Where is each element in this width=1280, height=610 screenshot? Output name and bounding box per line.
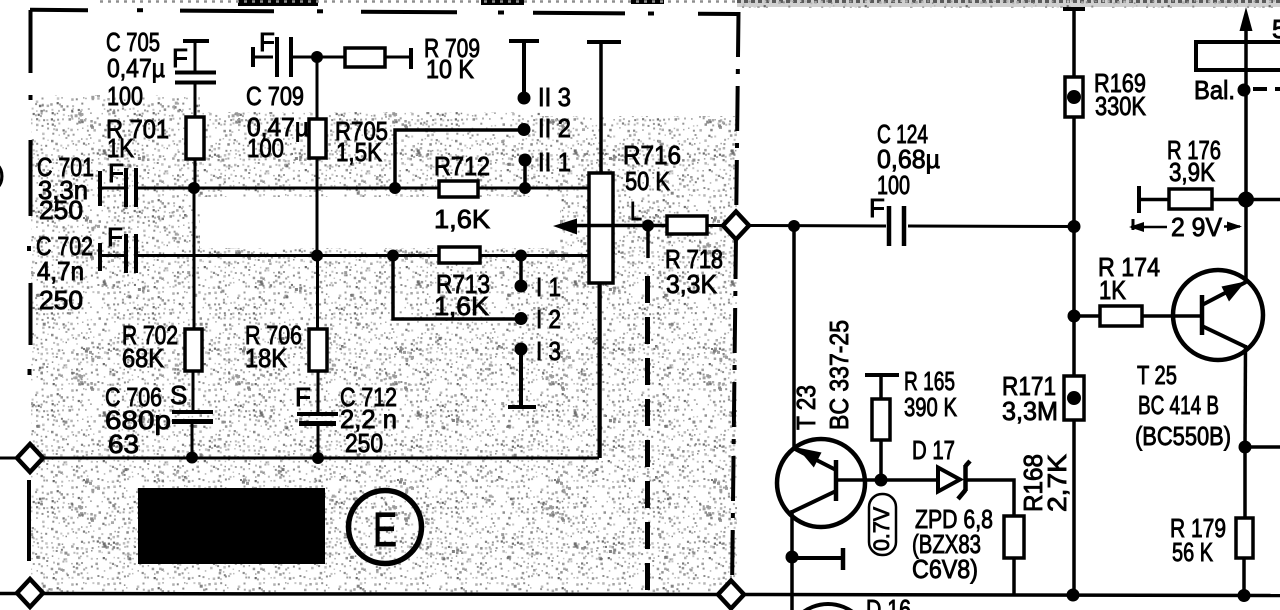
svg-text:50 K: 50 K xyxy=(625,166,671,196)
scan mark top edge 3 xyxy=(631,0,664,4)
svg-text:L: L xyxy=(630,196,642,226)
wire row y255 (C702 line) xyxy=(100,254,590,257)
wire row y188 (C701 line) xyxy=(100,187,590,190)
junction node T23 collector xyxy=(788,220,800,232)
wiper arrow of R716 xyxy=(553,219,667,235)
connector diamond bottom module edge xyxy=(718,581,744,609)
junction node II1 branch xyxy=(519,182,531,194)
resistor R169 column top terminal xyxy=(1063,9,1085,77)
module border right (dash-dot) xyxy=(732,12,739,592)
svg-text:BC 337-25: BC 337-25 xyxy=(824,320,854,430)
junction node I1 branch xyxy=(515,250,527,262)
resistor R706 xyxy=(245,320,327,373)
svg-text:F: F xyxy=(107,222,123,252)
connector diamond left y458 xyxy=(17,444,43,472)
node junction C709/R705/R709 xyxy=(311,51,323,63)
svg-text:Bal.: Bal. xyxy=(1194,75,1235,105)
wire row y458 xyxy=(0,283,599,458)
svg-text:D 16: D 16 xyxy=(866,594,911,610)
connector diamond bottom left xyxy=(17,579,43,607)
svg-text:BC 414 B: BC 414 B xyxy=(1138,390,1219,420)
svg-text:0.7V: 0.7V xyxy=(869,507,894,551)
junction node II2 branch xyxy=(389,182,401,194)
svg-text:3,3M: 3,3M xyxy=(1002,396,1058,426)
junction node C124/R169 xyxy=(1068,220,1081,233)
svg-text:68K: 68K xyxy=(122,343,165,373)
module border top (dash-dot) xyxy=(30,10,737,14)
svg-text:4,7n: 4,7n xyxy=(37,256,84,286)
supply arrow top right xyxy=(1240,7,1280,282)
junction node R174 xyxy=(1068,310,1081,323)
wire T23 emitter column xyxy=(790,510,794,610)
resistor R171 xyxy=(1002,371,1084,426)
junction node C712 ground wire xyxy=(312,452,324,464)
junction node C706 ground wire xyxy=(186,452,198,464)
junction node collector xyxy=(1239,441,1252,454)
resistor R165 xyxy=(865,366,958,480)
svg-text:250: 250 xyxy=(39,195,83,225)
junction node R705/C702 wire xyxy=(311,250,323,262)
svg-text:II 3: II 3 xyxy=(538,82,571,112)
svg-text:1,6K: 1,6K xyxy=(434,204,491,234)
resistor R718 xyxy=(665,216,724,299)
faint dotted scan line along top edge xyxy=(100,0,737,3)
capacitor C124 xyxy=(869,119,940,246)
svg-text:(BC550B): (BC550B) xyxy=(1135,421,1231,451)
zener diode D17 xyxy=(912,435,970,499)
svg-text:250: 250 xyxy=(39,285,83,315)
svg-text:T 25: T 25 xyxy=(1137,360,1177,390)
wire T23 base row xyxy=(838,478,941,482)
stipple white patch upper right xyxy=(540,10,738,116)
wire R701 column down through y255 xyxy=(193,188,196,329)
junction node base/R165/D17 xyxy=(875,474,888,487)
node II3 with terminal xyxy=(509,41,571,112)
stipple texture: module interior xyxy=(31,95,737,595)
wire R169 column xyxy=(1072,117,1076,376)
module inner dashed line xyxy=(645,276,650,590)
transistor T23 xyxy=(777,320,865,527)
junction node bottom R171 xyxy=(1067,589,1080,602)
svg-text:D 17: D 17 xyxy=(912,435,955,465)
node Bal xyxy=(1194,75,1280,105)
capacitor C702 xyxy=(36,222,136,315)
svg-text:II 2: II 2 xyxy=(538,113,571,143)
capacitor C709 xyxy=(246,27,345,163)
black redaction box xyxy=(138,488,325,564)
terminal stub at emitter xyxy=(792,548,843,570)
svg-text:E: E xyxy=(373,504,397,557)
capacitor C706 xyxy=(105,371,213,459)
svg-text:2 9V: 2 9V xyxy=(1171,212,1223,242)
wire R706 column xyxy=(316,256,319,329)
svg-text:0,47µ: 0,47µ xyxy=(107,53,165,83)
wire T25 collector down xyxy=(1243,345,1247,447)
connector box top right xyxy=(1196,42,1280,70)
node II2 wire xyxy=(395,113,571,188)
node I1 stub xyxy=(515,255,562,302)
svg-text:F: F xyxy=(259,27,275,57)
gray scan band top right xyxy=(737,0,1280,7)
scan mark top edge 1 xyxy=(238,0,318,6)
svg-text:T 23: T 23 xyxy=(791,385,821,430)
svg-text:II 1: II 1 xyxy=(538,147,571,177)
scan mark top edge 2 xyxy=(481,0,524,5)
svg-text:250: 250 xyxy=(345,428,383,458)
node I2 wire xyxy=(393,255,561,334)
svg-text:1K: 1K xyxy=(1099,275,1127,305)
stipple white patch middle xyxy=(200,197,560,248)
resistor R702 xyxy=(122,320,202,373)
resistor R174 xyxy=(1074,252,1202,326)
wire R171 to bottom xyxy=(1072,420,1076,595)
svg-text:I 3: I 3 xyxy=(536,336,561,366)
wire collector to right edge xyxy=(1245,445,1280,449)
wire R176 junction to right edge xyxy=(1246,198,1280,202)
resistor R701 xyxy=(106,114,204,188)
module border left (dash-dot) xyxy=(29,10,31,561)
svg-text:3,9K: 3,9K xyxy=(1169,157,1216,187)
svg-text:R712: R712 xyxy=(434,151,490,181)
connector diamond module output xyxy=(723,212,749,240)
svg-text:): ) xyxy=(0,159,5,189)
junction node bottom R179 xyxy=(1238,589,1251,602)
svg-text:F: F xyxy=(869,193,885,223)
svg-text:56 K: 56 K xyxy=(1172,537,1213,567)
stipple white patch upper middle xyxy=(200,28,584,112)
node I3 with terminal xyxy=(508,336,561,407)
resistor R179 xyxy=(1170,447,1253,595)
resistor R705 xyxy=(309,57,388,256)
svg-text:C6V8): C6V8) xyxy=(912,554,978,584)
svg-text:100: 100 xyxy=(107,81,143,111)
resistor R169 xyxy=(1065,68,1147,121)
svg-text:F: F xyxy=(295,382,311,412)
svg-text:390 K: 390 K xyxy=(904,392,958,422)
svg-text:3,3K: 3,3K xyxy=(666,269,718,299)
measurement 2.9V arrows xyxy=(1129,212,1242,242)
capacitor C701 xyxy=(37,152,136,225)
resistor R168 xyxy=(1004,453,1072,594)
svg-text:1,6K: 1,6K xyxy=(434,291,490,321)
svg-text:5: 5 xyxy=(1272,14,1280,44)
svg-text:1K: 1K xyxy=(107,133,135,163)
bottom wire xyxy=(0,594,1280,596)
junction node I2 branch xyxy=(387,250,399,262)
svg-text:2,7K: 2,7K xyxy=(1042,453,1072,512)
wire T23 collector column xyxy=(792,226,796,449)
capacitor C712 xyxy=(295,371,397,458)
svg-text:63: 63 xyxy=(108,429,139,459)
capacitor C705 xyxy=(106,27,216,117)
resistor R176 xyxy=(1139,135,1246,213)
svg-text:100: 100 xyxy=(247,133,284,163)
earth terminal circle E xyxy=(349,491,422,564)
transistor T25 xyxy=(1135,270,1263,451)
label ZPD 6,8 (BZX83 C6V8) xyxy=(912,504,993,584)
resistor R709 xyxy=(345,33,480,84)
measurement bubble 0.7V xyxy=(869,494,896,555)
svg-text:I 2: I 2 xyxy=(536,304,561,334)
wire D17 to R168 xyxy=(966,480,1014,516)
diode D16 partial at bottom xyxy=(786,594,911,610)
potentiometer R716 xyxy=(587,42,681,458)
junction node R701/C701 wire xyxy=(188,182,200,194)
resistor R712 xyxy=(434,151,491,234)
svg-text:I 1: I 1 xyxy=(536,272,561,302)
resistor R713 xyxy=(434,247,490,321)
node emitter junction xyxy=(786,551,799,564)
node II1 stub xyxy=(519,147,572,188)
main signal wire y226 xyxy=(748,226,1074,227)
svg-text:10 K: 10 K xyxy=(426,54,475,84)
junction node R176 xyxy=(1238,192,1254,208)
svg-text:F: F xyxy=(172,43,188,73)
svg-text:S: S xyxy=(170,380,187,410)
svg-text:330K: 330K xyxy=(1095,91,1147,121)
svg-text:C 709: C 709 xyxy=(246,81,304,111)
svg-text:18K: 18K xyxy=(245,343,288,373)
svg-text:1,5K: 1,5K xyxy=(336,137,383,167)
node L junction + stub xyxy=(642,220,654,259)
